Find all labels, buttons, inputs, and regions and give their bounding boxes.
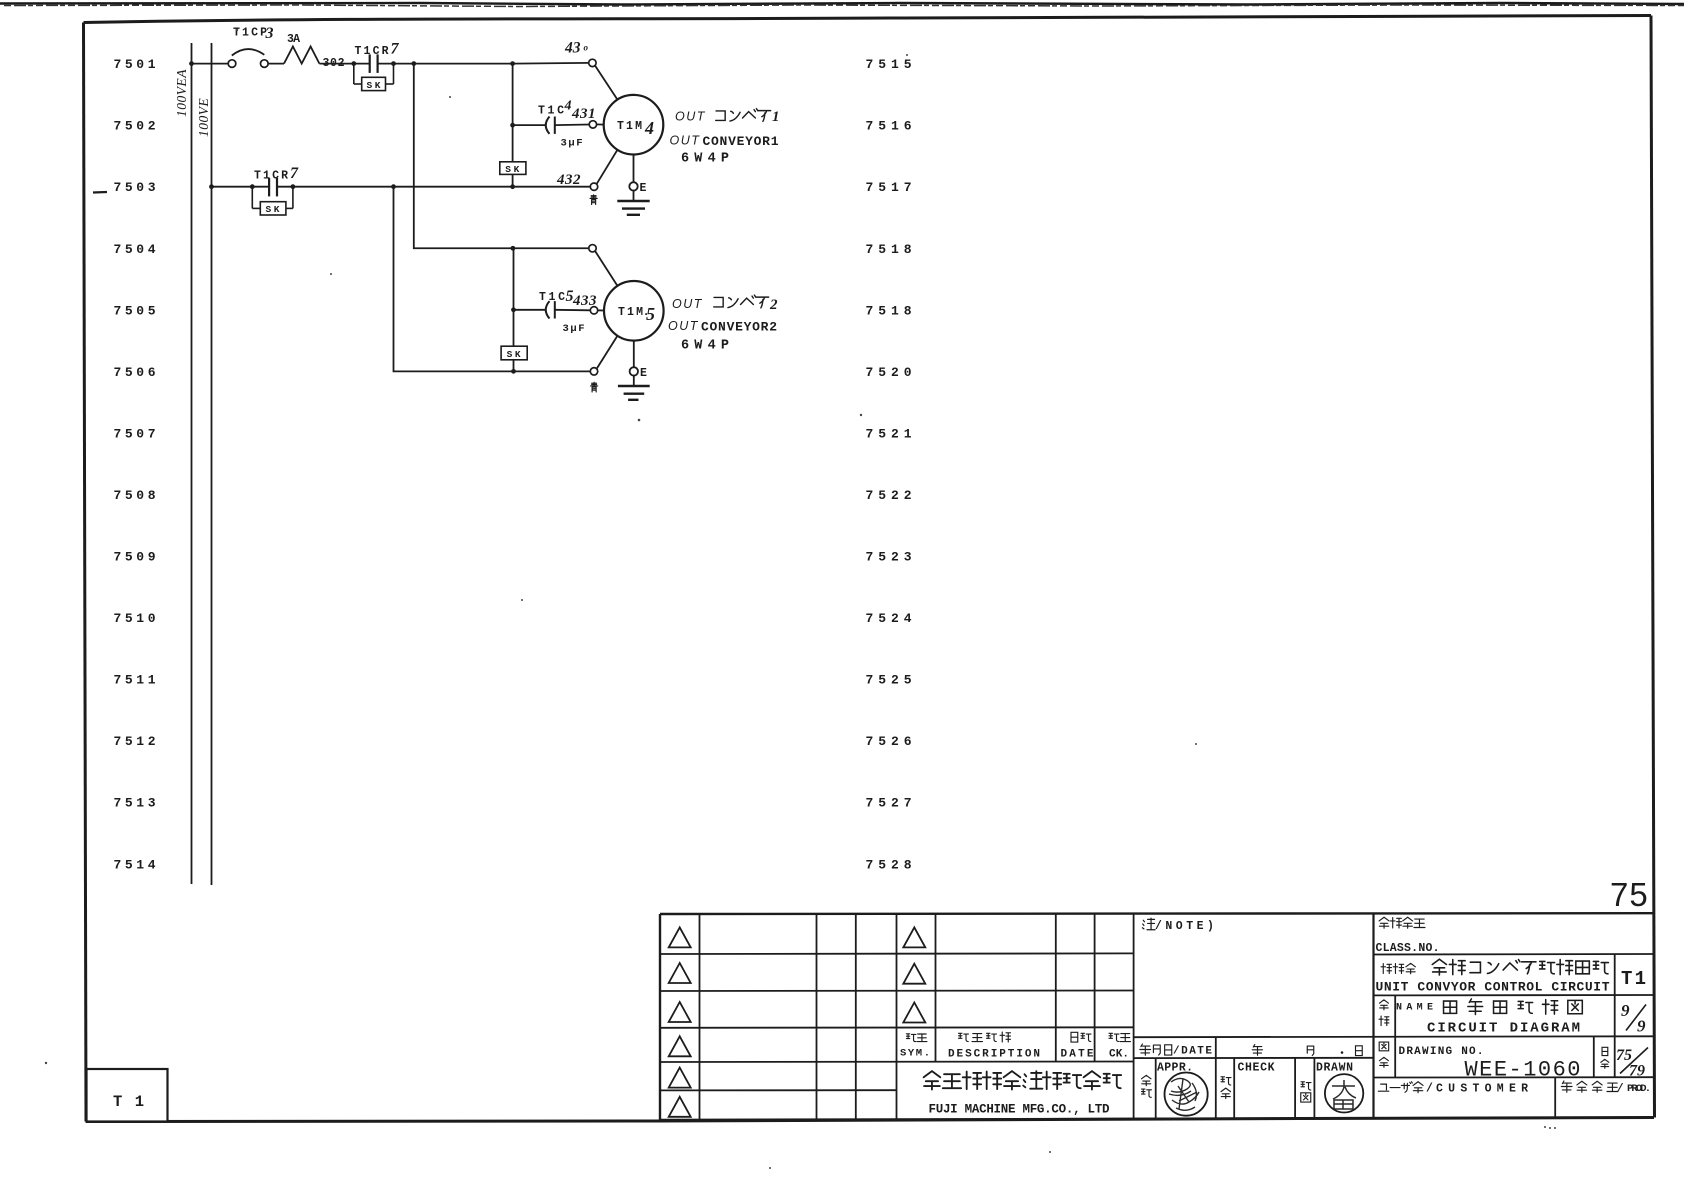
revision triangles middle column — [903, 927, 925, 1022]
svg-text:/: / — [1426, 1083, 1433, 1096]
terminal 431 — [589, 121, 596, 128]
SK surge suppressor inline (motor 2) — [501, 346, 527, 360]
class no panel — [1376, 917, 1440, 955]
junction right bracket 7503 — [291, 184, 296, 189]
wire terminal to motor T1M5 — [595, 251, 617, 286]
value label 3A — [287, 33, 300, 46]
terminal 433 — [590, 307, 597, 314]
svg-text:CK.: CK. — [1109, 1049, 1129, 1061]
wire 7501 to terminal 430 — [513, 62, 590, 65]
junction 7503 / SK drop — [510, 184, 515, 189]
drawing number panel — [1379, 1042, 1648, 1082]
svg-text:T1C: T1C — [539, 291, 565, 304]
bus 100VEA (vertical supply line) — [191, 43, 193, 884]
wire tap to capacitor T1C4 — [513, 124, 546, 126]
svg-text:3µF: 3µF — [563, 323, 585, 335]
terminal E (motor 1) — [629, 182, 646, 195]
wire motor T1M4 to E terminal — [633, 155, 635, 184]
SK surge suppressor parallel to T1CR7 (line 7503) — [252, 187, 293, 216]
svg-text:UNIT CONVYOR CONTROL CIRCUIT: UNIT CONVYOR CONTROL CIRCUIT — [1376, 979, 1610, 994]
wire 7501: bus to breaker — [192, 63, 229, 65]
svg-text:T1C: T1C — [538, 105, 564, 118]
svg-text:9: 9 — [1637, 1017, 1646, 1036]
date header row — [1140, 1044, 1362, 1058]
svg-text:T 1: T 1 — [1621, 968, 1646, 990]
node labels 7501-7514 (left line numbers) — [114, 57, 156, 872]
net label 100VEA — [174, 69, 189, 117]
svg-text:E: E — [640, 367, 647, 380]
svg-text:OUT: OUT — [672, 297, 703, 311]
svg-text:DESCRIPTION: DESCRIPTION — [948, 1049, 1040, 1061]
svg-text:OUT: OUT — [670, 134, 701, 148]
value label 302 — [323, 57, 345, 70]
svg-text:/: / — [1617, 1083, 1624, 1095]
SK surge suppressor inline (motor 1) — [500, 162, 526, 175]
header SYM / DESCRIPTION / DATE / CK — [900, 1032, 1131, 1060]
wire 7503: bus to contact — [212, 186, 270, 188]
node labels 7515-7528 (right line numbers) — [866, 57, 912, 872]
svg-text:DRAWN: DRAWN — [1316, 1062, 1353, 1075]
ground (motor 2) — [618, 375, 650, 400]
SK surge suppressor parallel to T1CR7 (line 7501) — [354, 64, 394, 91]
label T1CP3 — [233, 25, 274, 42]
wire color label blue (432) — [590, 195, 597, 205]
svg-text:o: o — [584, 43, 589, 53]
svg-text:5: 5 — [646, 304, 655, 324]
label 432 — [556, 172, 581, 188]
motor U T1M4 — [604, 95, 664, 155]
title block / revision table — [660, 913, 1654, 1120]
wire terminal 431 to motor — [596, 123, 604, 125]
svg-text:75: 75 — [1610, 876, 1649, 913]
wire terminal 430 to motor T1M4 — [595, 65, 617, 99]
svg-text:4: 4 — [644, 118, 654, 138]
fold mark dash left of 7503 — [93, 191, 107, 194]
revision triangles left column — [669, 927, 691, 1116]
svg-text:43: 43 — [564, 40, 581, 57]
svg-text:3µF: 3µF — [561, 138, 583, 150]
label T1C5 — [539, 288, 574, 305]
wire resistor to contact T1CR7 — [319, 63, 369, 65]
svg-text:79: 79 — [1629, 1063, 1645, 1080]
label OUT CONVEYOR1 — [670, 134, 779, 149]
svg-text:T1M: T1M — [617, 120, 642, 133]
wire contact to junctions — [378, 63, 513, 65]
svg-text:DATE: DATE — [1061, 1049, 1094, 1061]
svg-text:100VEA: 100VEA — [174, 69, 189, 117]
customer / prod panel — [1378, 1081, 1651, 1096]
svg-text:SYM.: SYM. — [900, 1048, 930, 1060]
terminal 430 — [589, 59, 596, 66]
capacitor T1C5 3uF — [546, 301, 591, 318]
svg-text:3: 3 — [265, 25, 274, 42]
wire tap to capacitor T1C5 — [514, 309, 546, 311]
motor U T1M5 — [604, 281, 664, 341]
svg-text:CIRCUIT DIAGRAM: CIRCUIT DIAGRAM — [1427, 1021, 1580, 1037]
svg-text:3A: 3A — [287, 33, 300, 46]
relay contact T1CR7 (line 7503) — [269, 178, 277, 197]
junction left bracket 7503 — [250, 184, 255, 189]
note label — [1142, 918, 1217, 933]
value label 3uF — [561, 138, 583, 150]
svg-text:CONVEYOR2: CONVEYOR2 — [701, 319, 777, 334]
svg-text:7: 7 — [290, 165, 299, 182]
terminal E (motor 2) — [630, 367, 647, 380]
label T1CR7 — [355, 41, 400, 59]
terminal 432 — [590, 183, 597, 190]
junction 7504 / cap drop — [511, 246, 516, 251]
wire drop x393.5: 7503 to 7506 — [394, 187, 514, 372]
resistor 302 (zigzag) — [284, 47, 319, 64]
svg-text:432: 432 — [556, 172, 581, 188]
wire terminal 433 to motor — [597, 309, 604, 311]
approval stamp (DRAWN) — [1325, 1074, 1363, 1112]
svg-text:WEE-1060: WEE-1060 — [1465, 1058, 1581, 1083]
svg-text:CLASS.NO.: CLASS.NO. — [1376, 942, 1440, 955]
wire color label blue (433) — [591, 382, 598, 392]
net label 100VE — [196, 98, 211, 137]
svg-text:PROD.: PROD. — [1627, 1083, 1651, 1095]
label 6W4P — [681, 152, 729, 167]
svg-text:CONVEYOR1: CONVEYOR1 — [703, 134, 779, 149]
junction 7503 / drop to 7506 — [391, 184, 396, 189]
svg-text:T1M: T1M — [618, 306, 643, 319]
svg-text:431: 431 — [571, 106, 596, 122]
unit name panel — [1376, 959, 1647, 994]
wire terminal to motor T1M5 lower — [597, 336, 618, 369]
wire drop x512.6: 7501 to 7503 (through SK) — [512, 64, 514, 187]
wire terminal 432 to motor T1M4 — [597, 150, 618, 184]
circuit breaker T1CP3 3A — [228, 49, 268, 67]
svg-text:/NOTE): /NOTE) — [1155, 920, 1217, 933]
junction on bus 100VEA line 7501 — [189, 61, 194, 66]
ground (motor 1) — [617, 190, 649, 215]
label 431 — [571, 106, 596, 122]
wire 7503 contact to terminal 432 — [277, 186, 591, 188]
svg-text:FUJI MACHINE MFG.CO., LTD: FUJI MACHINE MFG.CO., LTD — [929, 1103, 1110, 1117]
wire drop x414: 7501 to 7504 — [414, 64, 513, 249]
junction 7506 / SK2 drop — [511, 369, 516, 374]
wire 7506 to terminal — [514, 370, 591, 372]
svg-text:75: 75 — [1616, 1047, 1632, 1064]
terminal (motor2 bottom) — [590, 368, 597, 375]
svg-text:CHECK: CHECK — [1238, 1062, 1275, 1075]
svg-text:/DATE: /DATE — [1173, 1046, 1212, 1058]
bus 100VE (vertical supply line) — [211, 43, 213, 885]
svg-text:100VE: 100VE — [196, 98, 211, 137]
wire breaker to resistor — [268, 63, 284, 65]
relay contact T1CR7 (line 7501) — [370, 54, 378, 73]
svg-text:9: 9 — [1621, 1001, 1630, 1020]
company name Fuji Machine Mfg — [924, 1071, 1122, 1116]
junction line7501 / drop to 7504 — [411, 61, 416, 66]
drawing name panel — [1379, 999, 1646, 1037]
junction line7501 / drop to SK1 — [510, 61, 515, 66]
label 430 — [564, 40, 589, 57]
wire drop x513.5: 7504 to 7506 — [513, 248, 515, 371]
svg-text:T 1: T 1 — [113, 1093, 144, 1111]
junction capacitor T1C5 tap — [511, 307, 516, 312]
svg-text:DRAWING NO.: DRAWING NO. — [1399, 1046, 1484, 1058]
svg-text:1: 1 — [772, 109, 780, 125]
label OUT CONVEYOR 1 (Japanese) — [675, 109, 780, 125]
svg-text:4: 4 — [564, 99, 572, 114]
label T1CR7 (line 7503) — [254, 165, 299, 183]
svg-text:OUT: OUT — [668, 319, 699, 333]
approval stamp (APPR) — [1165, 1073, 1208, 1116]
label OUT CONVEYOR2 — [668, 319, 777, 334]
svg-text:E: E — [640, 182, 647, 195]
svg-text:7: 7 — [391, 41, 400, 58]
junction on bus 100VE line 7503 — [209, 184, 214, 189]
svg-text:OUT: OUT — [675, 110, 706, 124]
wire 7504 to terminal — [513, 247, 589, 249]
svg-text:2: 2 — [769, 297, 778, 313]
page number 75 — [1610, 876, 1649, 913]
capacitor T1C4 3uF — [546, 117, 590, 134]
wire motor T1M5 to E terminal — [633, 341, 635, 369]
junction left of contact T1CR7 — [351, 61, 356, 66]
label 6W4P (2) — [681, 339, 729, 354]
label T1C4 — [538, 99, 572, 118]
terminal (motor2 top) — [589, 245, 596, 252]
junction right of contact — [391, 61, 396, 66]
label 433 — [572, 293, 597, 309]
label OUT CONVEYOR 2 (Japanese) — [672, 295, 778, 313]
sheet code box T1 — [87, 1069, 168, 1122]
value label 3uF (2) — [563, 323, 585, 335]
approval cells APPR / CHECK / DRAWN — [1142, 1062, 1354, 1103]
junction capacitor T1C4 tap — [510, 123, 515, 128]
